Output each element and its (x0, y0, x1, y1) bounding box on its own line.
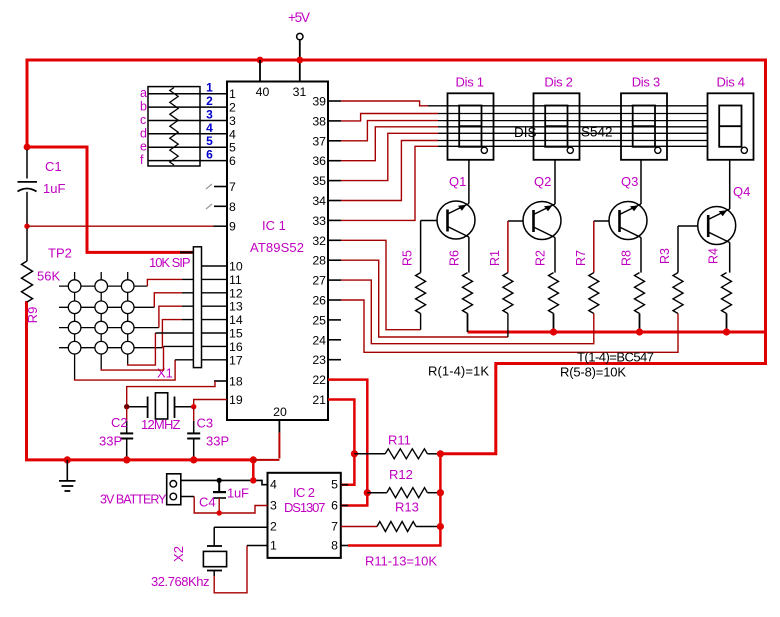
wire segment line 4 through displays (438, 126, 708, 128)
svg-text:23: 23 (312, 353, 326, 367)
svg-text:IC 1: IC 1 (262, 218, 286, 233)
node C3 ground junction (190, 456, 197, 463)
resistor network zigzag (170, 88, 178, 166)
resistor R12 (367, 492, 387, 494)
resistor R13 (341, 526, 377, 528)
pin 27 stub (328, 279, 341, 281)
wire Q2 emitter down (554, 238, 556, 273)
svg-text:2: 2 (206, 94, 213, 108)
wire VCC bus: top rail, left drop to C1, right edge down to emitter bus and R11 (27, 60, 766, 454)
crystal X1 12MHZ (127, 393, 194, 419)
svg-text:10: 10 (229, 260, 243, 274)
svg-text:R11-13=10K: R11-13=10K (365, 554, 437, 569)
svg-text:2: 2 (270, 520, 277, 534)
wire segment b row to pin 2 (148, 106, 227, 108)
svg-text:32: 32 (312, 234, 326, 248)
svg-text:3: 3 (270, 499, 277, 513)
node R2 bus junction (550, 328, 557, 335)
node R12 left junction (364, 489, 371, 496)
wire R6 bottom to bus (467, 314, 469, 333)
no-connect tick pin 8 (206, 204, 212, 209)
wire IC1 pin 38 to display segment line (341, 114, 438, 121)
wire Q1 base lead (421, 220, 437, 222)
no-connect tick pin 7 (206, 184, 212, 189)
svg-text:33P: 33P (99, 434, 122, 449)
wire IC1 pin 34 to display segment line (341, 141, 438, 201)
wire IC1 pin21 to R11/IC2 pin5 (328, 400, 354, 485)
resistor R8 (635, 273, 645, 314)
wire segment line 5 through displays (438, 132, 708, 134)
svg-text:6: 6 (206, 148, 213, 162)
wire IC1 pin10 to SIP (202, 265, 228, 267)
svg-text:8: 8 (331, 539, 338, 553)
wire R2 bottom to bus (553, 314, 555, 333)
wire X2 bottom to IC2 pin1 (214, 546, 247, 593)
wire ground bus (bottom) (27, 301, 254, 460)
transistor Q4 BC547 (698, 207, 736, 245)
svg-text:34: 34 (312, 194, 326, 208)
svg-text:d: d (140, 126, 147, 140)
pin 39 stub (328, 100, 341, 102)
svg-text:TP2: TP2 (48, 246, 72, 261)
svg-text:6: 6 (229, 154, 236, 168)
crystal X2 32.768KHz (203, 527, 226, 576)
node crystal right junction (191, 404, 196, 409)
svg-text:31: 31 (293, 85, 307, 99)
svg-text:R2: R2 (534, 250, 548, 266)
wire R11-13 right rail to IC2 pin8 (348, 454, 440, 546)
wire Q2 base to R1 (507, 221, 509, 273)
svg-text:R8: R8 (620, 250, 634, 266)
svg-text:13: 13 (229, 300, 243, 314)
node pin20 ground junction (250, 456, 257, 463)
svg-text:4: 4 (229, 127, 236, 141)
svg-text:5: 5 (206, 134, 213, 148)
pin 25 stub (328, 319, 341, 321)
node pin9 tap junction (24, 224, 29, 229)
pin 23 stub (328, 359, 341, 361)
display Dis 3 body (621, 93, 667, 160)
wire ground bus to battery/IC2 pin4 (252, 460, 255, 481)
node R13 right junction (437, 523, 444, 530)
svg-text:R1: R1 (488, 250, 502, 266)
wire IC1 pin 39 to display segment line (341, 101, 428, 106)
wire segment line 2 through displays (438, 113, 708, 115)
capacitor C1 (26, 150, 28, 179)
wire IC1 pin28 to R1 bottom (341, 260, 508, 337)
resistor R5 (416, 273, 426, 314)
svg-text:R3: R3 (658, 248, 672, 264)
svg-text:X2: X2 (171, 546, 186, 562)
svg-text:32.768Khz: 32.768Khz (151, 574, 210, 589)
wire R4 bottom to bus (726, 314, 728, 333)
resistor R9 56K (26, 229, 28, 262)
svg-text:36: 36 (312, 154, 326, 168)
transistor Q3 BC547 (609, 202, 647, 240)
svg-text:16: 16 (229, 340, 243, 354)
svg-text:3: 3 (206, 108, 213, 122)
node R11 left junction (351, 450, 358, 457)
wire segment e row to pin 5 (148, 146, 227, 148)
svg-text:5: 5 (331, 478, 338, 492)
wire segment a row to pin 1 (148, 93, 227, 95)
svg-text:18: 18 (229, 375, 243, 389)
svg-text:R(5-8)=10K: R(5-8)=10K (560, 365, 626, 380)
svg-text:R9: R9 (25, 307, 40, 324)
display Dis 4 body (708, 93, 754, 160)
svg-text:R7: R7 (574, 250, 588, 266)
svg-text:5: 5 (229, 141, 236, 155)
svg-text:25: 25 (312, 313, 326, 327)
svg-text:4: 4 (206, 121, 213, 135)
svg-text:R6: R6 (448, 250, 462, 266)
svg-text:DS1307: DS1307 (284, 500, 326, 515)
wire segment line 1 through displays (428, 105, 708, 107)
display Dis 2 body (534, 93, 580, 160)
svg-text:7: 7 (331, 520, 338, 534)
wire SIP common feed (black tail) (180, 251, 193, 253)
keypad matrix X1 (59, 272, 162, 379)
wire keypad row 3 to IC1 pin 13 (159, 306, 182, 327)
pin 33 stub (328, 219, 341, 221)
wire IC1 pin27 to R7 bottom (341, 280, 594, 344)
wire Q2 base lead (508, 220, 523, 222)
svg-text:X1: X1 (157, 366, 173, 381)
display Dis 1 seven-segment digit (459, 106, 481, 147)
svg-text:Dis 3: Dis 3 (632, 75, 661, 90)
wire Q4 emitter down (729, 243, 731, 273)
wire IC1 pin 36 to display segment line (341, 127, 438, 161)
svg-text:1: 1 (270, 539, 277, 553)
pin 20 stub (278, 420, 280, 433)
pin 36 stub (328, 160, 341, 162)
node R8 bus junction (636, 328, 643, 335)
svg-text:f: f (140, 153, 144, 167)
wire display to Q1 collector (468, 160, 470, 204)
svg-text:C3: C3 (197, 416, 214, 431)
pin 37 stub (328, 140, 341, 142)
svg-text:IC 2: IC 2 (293, 485, 315, 500)
display Dis 1 decimal point (481, 147, 487, 153)
svg-text:R(1-4)=1K: R(1-4)=1K (428, 364, 489, 379)
wire Q1 emitter down (468, 237, 470, 273)
capacitor C4 1uF (213, 480, 226, 513)
svg-text:Q2: Q2 (534, 174, 551, 189)
resistor R7 (589, 273, 599, 314)
svg-text:8: 8 (229, 200, 236, 214)
svg-text:2: 2 (229, 101, 236, 115)
svg-text:R4: R4 (707, 248, 721, 264)
svg-text:1uF: 1uF (43, 181, 65, 196)
svg-text:38: 38 (312, 114, 326, 128)
display Dis 2 seven-segment digit (545, 106, 567, 147)
svg-text:10K SIP: 10K SIP (149, 255, 191, 270)
svg-text:Q1: Q1 (449, 174, 466, 189)
svg-text:26: 26 (312, 294, 326, 308)
display Dis 3 decimal point (655, 147, 661, 153)
pin 32 stub (328, 239, 341, 241)
wire keypad column 3 to IC1 pin 15 (128, 333, 156, 365)
svg-text:15: 15 (229, 327, 243, 341)
wire C1/R9 node to IC1 pin 9 (27, 225, 214, 227)
svg-text:11: 11 (229, 273, 242, 287)
svg-text:9: 9 (229, 220, 236, 234)
svg-text:33: 33 (312, 214, 326, 228)
svg-text:14: 14 (229, 313, 243, 327)
svg-text:+5V: +5V (288, 10, 310, 25)
node pin40 junction (257, 57, 264, 64)
svg-text:39: 39 (312, 95, 326, 109)
wire Q4 base lead (678, 225, 698, 227)
wire IC1 pin 37 to display segment line (341, 121, 438, 141)
svg-text:e: e (140, 140, 147, 154)
wire +5V terminal to pin 31 (299, 40, 301, 82)
wire display to Q4 collector (729, 160, 731, 209)
resistor R1 (503, 273, 513, 314)
wire keypad row 1 to IC1 pin 11 (147, 279, 182, 286)
wire segment line 3 through displays (438, 120, 708, 122)
node pin31 junction (296, 57, 303, 64)
resistor R2 (549, 273, 559, 314)
svg-text:C1: C1 (45, 159, 62, 174)
svg-text:Q3: Q3 (621, 174, 638, 189)
wire keypad row 2 to IC1 pin 12 (154, 293, 182, 308)
wire IC1 pin32 to R5 bottom (341, 240, 421, 329)
display Dis 3 seven-segment digit (633, 106, 655, 147)
svg-text:3: 3 (229, 114, 236, 128)
transistor Q2 BC547 (523, 202, 561, 240)
node C4 top junction (217, 478, 222, 483)
svg-text:a: a (140, 86, 147, 100)
node C1 top junction (24, 144, 31, 151)
wire battery+ to IC2 pin4 (181, 480, 268, 484)
svg-text:24: 24 (312, 333, 326, 347)
resistor R6 (463, 273, 473, 314)
svg-text:R13: R13 (395, 500, 419, 515)
svg-text:C2: C2 (111, 415, 128, 430)
svg-text:Dis 4: Dis 4 (717, 75, 746, 90)
svg-text:T(1-4)=BC547: T(1-4)=BC547 (577, 350, 654, 365)
svg-text:40: 40 (256, 85, 270, 99)
wire battery- to IC2 pin3 (181, 496, 194, 498)
node ground drop junction (250, 477, 256, 483)
display Dis 2 decimal point (567, 147, 573, 153)
svg-text:1uF: 1uF (227, 486, 249, 501)
svg-text:Q4: Q4 (733, 184, 750, 199)
svg-text:R12: R12 (389, 467, 413, 482)
wire R8 bottom to bus (639, 314, 641, 333)
op IC2 DS1307 body (268, 473, 341, 558)
svg-text:R5: R5 (401, 250, 415, 266)
pin 34 stub (328, 200, 341, 202)
svg-text:56K: 56K (37, 269, 60, 284)
display Dis 4 seven-segment digit (719, 106, 741, 147)
svg-text:35: 35 (312, 174, 326, 188)
wire segment d row to pin 4 (148, 133, 227, 135)
pin 24 stub (328, 339, 341, 341)
wire IC1 pin19 to crystal right node (194, 400, 227, 407)
wire Q1 base to R5 (420, 221, 422, 273)
wire Q3 emitter down (640, 238, 642, 273)
op IC1 AT89S52 body (227, 82, 328, 421)
svg-text:Dis 1: Dis 1 (456, 75, 485, 90)
svg-text:6: 6 (331, 499, 338, 513)
pin 38 stub (328, 120, 341, 122)
node crystal left junction (124, 404, 129, 409)
svg-text:21: 21 (312, 393, 326, 407)
svg-text:1: 1 (206, 81, 213, 95)
wire segment f row to pin 6 (148, 160, 227, 162)
svg-text:R11: R11 (388, 433, 411, 448)
svg-text:1: 1 (229, 87, 236, 101)
wire display to Q2 collector (554, 160, 556, 204)
svg-text:37: 37 (312, 134, 326, 148)
wire IC1 pin20 to ground bus (253, 433, 279, 460)
svg-text:Dis 2: Dis 2 (544, 75, 573, 90)
node ground symbol junction (64, 456, 71, 463)
svg-text:33P: 33P (206, 434, 229, 449)
svg-text:12: 12 (229, 286, 243, 300)
svg-text:4: 4 (270, 478, 277, 492)
wire segment line 7 through displays (438, 145, 708, 147)
wire from C1 node to 10K SIP common (27, 147, 193, 252)
node R4 bus junction (723, 328, 730, 335)
svg-text:19: 19 (229, 393, 243, 407)
pin 28 stub (328, 259, 341, 261)
wire X2 top to IC2 pin2 (214, 526, 267, 528)
resistor R4 (722, 273, 732, 314)
wire IC1 pin18 to crystal left node (127, 381, 215, 407)
wire IC1 pin22 to R12/IC2 pin6 (328, 380, 367, 506)
pin 18 stub (214, 380, 227, 382)
wire keypad column 2 to IC1 pin 16 (101, 346, 163, 370)
display Dis 4 decimal point (741, 147, 747, 153)
svg-text:12MHZ: 12MHZ (141, 417, 181, 432)
wire display to Q3 collector (640, 160, 642, 204)
resistor network RN1 (segment resistors a-f) body (148, 87, 200, 166)
wire IC1 pin 33 to display segment line (341, 146, 438, 220)
wire Q3 base lead (594, 220, 609, 222)
transistor Q1 BC547 (437, 201, 475, 239)
wire IC1 pin26 to R3 bottom (341, 300, 678, 352)
svg-text:28: 28 (312, 254, 326, 268)
ground symbol (59, 460, 76, 491)
wire keypad row 4 to IC1 pin 14 (162, 320, 182, 348)
wire keypad column 1 to IC1 pin 17 (75, 360, 176, 380)
pin 7 stub (214, 186, 227, 188)
svg-text:AT89S52: AT89S52 (250, 240, 304, 255)
pin 35 stub (328, 180, 341, 182)
resistor R11 (354, 453, 385, 455)
svg-text:27: 27 (312, 274, 326, 288)
display Dis 1 body (448, 93, 494, 160)
node R12 right junction (437, 489, 444, 496)
pin 5 stub IC2 (341, 484, 348, 486)
svg-text:20: 20 (273, 405, 287, 419)
svg-text:b: b (140, 100, 147, 114)
wire emitter-resistor +5V bus (468, 331, 767, 334)
capacitor C2 33P (120, 407, 133, 460)
wire Q4 base to R3 (677, 226, 679, 273)
wire segment line 6 through displays (438, 140, 708, 142)
wire Q3 base to R7 (593, 221, 595, 273)
resistor pack 10K SIP (193, 247, 201, 368)
svg-text:17: 17 (229, 353, 243, 367)
pin 6 stub IC2 (341, 505, 348, 507)
node C2 ground junction (123, 456, 130, 463)
svg-text:7: 7 (229, 180, 236, 194)
capacitor C3 33P (187, 407, 200, 460)
pin 26 stub (328, 299, 341, 301)
wire segment c row to pin 3 (148, 120, 227, 122)
battery connector 3V (167, 474, 181, 505)
wire IC1 pin 35 to display segment line (341, 133, 438, 180)
svg-text:c: c (140, 113, 146, 127)
svg-text:C4: C4 (199, 495, 216, 510)
node R11 right junction (437, 450, 444, 457)
svg-text:3V BATTERY: 3V BATTERY (100, 493, 167, 507)
pin 8 stub (214, 205, 227, 207)
node C4 bottom junction (217, 510, 222, 515)
pin 40 stub (259, 60, 261, 82)
+5V terminal (297, 33, 303, 39)
svg-text:22: 22 (312, 373, 326, 387)
resistor R3 (673, 273, 683, 314)
